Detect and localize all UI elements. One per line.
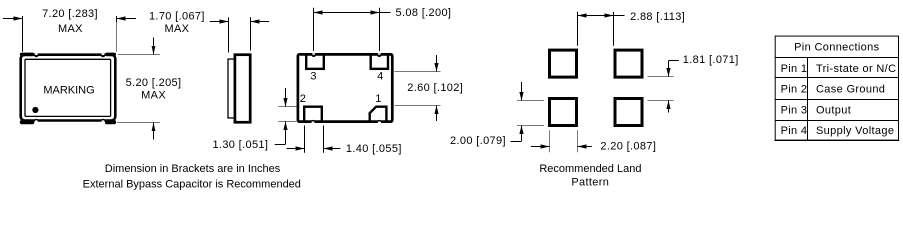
dimension 2.60 [.102] <box>394 71 440 73</box>
svg-text:1.30 [.051]: 1.30 [.051] <box>212 139 268 151</box>
castellation notch pad 1 <box>377 120 382 122</box>
package body inner outline <box>25 59 111 116</box>
dimension 1.70 [.067] MAX <box>228 17 230 52</box>
svg-text:MAX: MAX <box>141 90 166 102</box>
svg-text:7.20 [.283]: 7.20 [.283] <box>42 8 98 20</box>
svg-text:Pin 2: Pin 2 <box>781 84 808 96</box>
svg-text:1.70 [.067]: 1.70 [.067] <box>149 11 205 23</box>
svg-text:Tri-state or N/C: Tri-state or N/C <box>816 63 896 75</box>
svg-text:2.00 [.079]: 2.00 [.079] <box>450 135 506 147</box>
dimension 5.20 [.205] MAX <box>118 54 160 56</box>
corner tab top-left <box>20 53 35 57</box>
svg-text:3: 3 <box>310 70 316 82</box>
svg-text:MARKING: MARKING <box>43 84 94 96</box>
corner tab top-right <box>105 53 116 57</box>
svg-text:4: 4 <box>377 70 383 82</box>
dimension 1.30 [.051] <box>278 106 296 108</box>
svg-text:1: 1 <box>375 93 381 105</box>
package body outer outline <box>21 55 116 121</box>
castellation notch pad 3 <box>311 55 316 57</box>
castellation notch pad 2 <box>311 120 316 122</box>
svg-text:2.60 [.102]: 2.60 [.102] <box>407 82 463 94</box>
pin 1 index dot <box>32 107 38 113</box>
pad 1 (bottom-right) with chamfer <box>370 107 387 122</box>
dimension 5.08 [.200] <box>313 8 315 51</box>
dimension 1.40 [.055] <box>304 126 306 153</box>
svg-text:MAX: MAX <box>164 23 189 35</box>
svg-text:5.20 [.205]: 5.20 [.205] <box>126 77 182 89</box>
svg-text:Pin 3: Pin 3 <box>781 105 808 117</box>
castellation notch top-right <box>101 55 106 57</box>
land pad bottom-right <box>615 99 642 126</box>
svg-text:Pin 4: Pin 4 <box>781 125 808 137</box>
svg-text:1.81 [.071]: 1.81 [.071] <box>683 54 739 66</box>
corner tab bottom-right <box>105 120 116 124</box>
land pad top-left <box>550 50 577 77</box>
castellation notch pad 4 <box>377 55 382 57</box>
svg-text:2.88 [.113]: 2.88 [.113] <box>630 11 685 23</box>
svg-text:5.08 [.200]: 5.08 [.200] <box>396 7 452 19</box>
castellation notch top-left <box>34 55 39 57</box>
svg-text:Output: Output <box>816 105 851 117</box>
svg-text:MAX: MAX <box>58 23 83 35</box>
castellation notch bottom-left <box>34 119 39 121</box>
dimension 7.20 [.283] MAX <box>3 18 22 20</box>
svg-text:1.40 [.055]: 1.40 [.055] <box>346 143 402 155</box>
svg-text:2: 2 <box>300 93 306 105</box>
dimension 1.81 [.071] <box>648 76 674 78</box>
svg-text:External Bypass Capacitor is R: External Bypass Capacitor is Recommended <box>83 178 301 190</box>
land pad top-right <box>615 50 642 77</box>
svg-text:2.20 [.087]: 2.20 [.087] <box>600 141 656 153</box>
pad 2 (bottom-left) <box>304 107 322 122</box>
castellation notch bottom-right <box>101 119 106 121</box>
pad 3 (top-left) <box>306 54 324 69</box>
svg-text:Supply Voltage: Supply Voltage <box>816 125 894 137</box>
svg-text:Recommended Land: Recommended Land <box>539 163 641 175</box>
side view cover flange <box>228 59 235 118</box>
pad 4 (top-right) <box>371 54 388 69</box>
svg-text:Pin 1: Pin 1 <box>781 63 808 75</box>
corner tab bottom-left <box>20 120 35 124</box>
svg-text:Case Ground: Case Ground <box>816 84 885 96</box>
svg-text:Pattern: Pattern <box>571 176 609 188</box>
svg-text:Dimension in Brackets are in I: Dimension in Brackets are in Inches <box>105 163 281 175</box>
side view body <box>235 55 250 123</box>
dimension 2.00 [.079] <box>517 100 544 102</box>
dimension 2.88 [.113] <box>577 12 579 46</box>
land pad bottom-left <box>550 99 577 126</box>
bottom view body outline <box>298 54 392 121</box>
dimension 2.20 [.087] <box>549 130 551 152</box>
svg-text:Pin Connections: Pin Connections <box>794 42 880 54</box>
